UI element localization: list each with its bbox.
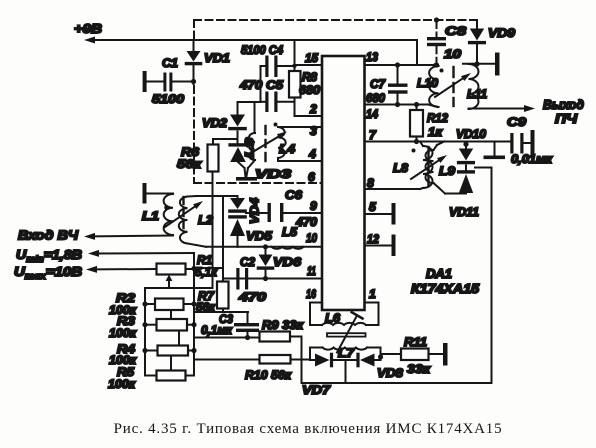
- value 100k (R3): [109, 326, 137, 340]
- wire varicap junction to C6: [246, 212, 268, 214]
- label Umax: [14, 264, 82, 281]
- value 10 (C8): [444, 47, 461, 61]
- svg-text:Umin=1,8В: Umin=1,8В: [16, 247, 82, 264]
- ladder link R3-R4: [178, 331, 180, 346]
- svg-text:VD6: VD6: [273, 255, 301, 269]
- label Вход ВЧ: [18, 228, 79, 243]
- chassis bar (VD9): [495, 53, 500, 76]
- varicap VD4: [228, 196, 247, 213]
- pin 2 wire: [295, 115, 323, 117]
- svg-text:56к: 56к: [177, 157, 202, 171]
- label VD3: [255, 167, 291, 181]
- resistor R6: [208, 139, 238, 172]
- inductor L8: [412, 142, 433, 190]
- label VD10: [456, 127, 486, 141]
- inductor L10: [417, 63, 444, 107]
- IC DA1 box: [322, 56, 365, 310]
- varicap VD3: [228, 143, 247, 177]
- resistor R5: [145, 371, 194, 381]
- inductor L1: [164, 194, 173, 235]
- svg-text:470: 470: [295, 215, 317, 229]
- svg-text:680: 680: [299, 83, 320, 97]
- dashed boundary left edge: [193, 20, 195, 182]
- label R2: [116, 291, 135, 305]
- svg-text:C8: C8: [445, 24, 466, 38]
- label R9 33k: [262, 318, 304, 332]
- power rail +9V wire: [84, 37, 417, 66]
- tuning arrow L10/L11: [435, 73, 471, 97]
- core L10/L11: [452, 67, 454, 106]
- pin 5 wire and chassis bar: [365, 203, 396, 225]
- svg-text:1к: 1к: [428, 125, 443, 139]
- capacitor C5: [261, 92, 295, 113]
- svg-text:L2: L2: [198, 213, 213, 227]
- wire Umin: [88, 250, 194, 257]
- resistor R12: [410, 102, 423, 144]
- tuning arrow L8/L9: [411, 155, 447, 179]
- input wire Вход ВЧ: [84, 233, 173, 240]
- svg-text:C9: C9: [507, 115, 526, 129]
- label DA1: [426, 267, 452, 281]
- label L7: [338, 346, 355, 360]
- inductor L4: [274, 123, 286, 162]
- svg-text:L11: L11: [467, 87, 487, 101]
- svg-text:R12: R12: [427, 111, 448, 125]
- label C9: [507, 115, 526, 129]
- wire L11 top to chassis: [463, 63, 495, 65]
- svg-text:L1: L1: [142, 209, 159, 223]
- svg-text:C1: C1: [162, 56, 178, 70]
- wire VD7 to VD8: [334, 360, 356, 383]
- tuning arrow L1/L2: [165, 201, 203, 227]
- pin 14 wire: [365, 104, 417, 106]
- label Umin: [16, 247, 82, 264]
- label L1: [142, 209, 159, 223]
- wire R7 bottom: [194, 311, 248, 313]
- pin 8 label: [367, 176, 374, 190]
- varicap VD10: [457, 142, 475, 165]
- chassis bar (R11): [443, 343, 448, 366]
- svg-text:4: 4: [308, 147, 316, 161]
- capacitor C6: [268, 203, 284, 222]
- pin 6 label: [308, 170, 315, 184]
- left rail: [142, 288, 147, 376]
- label C6: [285, 188, 302, 202]
- label Vyhod PCh: [543, 97, 584, 126]
- pin 13 label: [366, 50, 378, 64]
- IF output wire: [469, 105, 536, 112]
- svg-text:0,01мк: 0,01мк: [511, 152, 553, 166]
- label L9: [439, 164, 455, 178]
- pin 16 label: [306, 287, 316, 301]
- svg-text:100к: 100к: [109, 326, 137, 340]
- pin 13 wire: [365, 64, 438, 66]
- svg-text:16: 16: [306, 287, 316, 301]
- capacitor C8: [427, 17, 446, 67]
- tuning slug L6/L7: [337, 312, 363, 352]
- varicap VD5: [228, 215, 247, 247]
- svg-text:5100: 5100: [152, 92, 184, 106]
- pin 11 wire: [223, 278, 322, 280]
- diode VD7: [310, 353, 333, 368]
- label L8: [393, 161, 408, 175]
- pin 4 label: [308, 147, 316, 161]
- pin 12 label: [367, 232, 379, 246]
- svg-text:L8: L8: [393, 161, 408, 175]
- varicap VD11: [445, 170, 475, 193]
- resistor R2: [145, 299, 194, 311]
- inductor L2: [179, 196, 206, 247]
- label +9V: [74, 21, 102, 36]
- value 56k (R7): [196, 300, 216, 314]
- svg-text:6: 6: [308, 170, 315, 184]
- label R12: [427, 111, 448, 125]
- wire +9V to R8: [294, 40, 296, 71]
- svg-text:C7: C7: [370, 77, 386, 91]
- pin 5 label: [369, 200, 376, 214]
- label C1: [162, 56, 178, 70]
- chassis ground (tank): [236, 177, 257, 181]
- svg-text:R11: R11: [404, 335, 427, 349]
- resistor R10: [194, 355, 310, 364]
- wire wiper to rails: [145, 287, 213, 289]
- value 100k (R4): [109, 353, 137, 367]
- capacitor C7: [388, 62, 408, 107]
- label L10: [417, 76, 438, 90]
- svg-text:2: 2: [309, 102, 317, 116]
- capacitor C2: [223, 268, 266, 290]
- svg-text:Рис. 4.35 г. Типовая схема вкл: Рис. 4.35 г. Типовая схема включения ИМС…: [114, 421, 503, 437]
- wire varicap mid to right rail: [466, 166, 492, 170]
- svg-text:0,1мк: 0,1мк: [201, 323, 233, 337]
- svg-text:VD8: VD8: [377, 366, 403, 380]
- value 0.01mk (C9): [511, 152, 553, 166]
- value 5.1k (R1): [195, 265, 218, 279]
- svg-text:R9 33к: R9 33к: [262, 318, 304, 332]
- label L11: [467, 87, 487, 101]
- value 470 (C2): [238, 290, 267, 304]
- svg-text:C6: C6: [285, 188, 302, 202]
- inductor L7: [310, 348, 381, 356]
- label VD9: [488, 26, 515, 40]
- label L2: [198, 213, 213, 227]
- dashed AGC boundary top edge: [194, 19, 477, 21]
- label VD7: [302, 383, 331, 397]
- wire rail to osc feed: [194, 267, 223, 269]
- diode VD1: [185, 41, 203, 84]
- pin 4 wire: [278, 160, 322, 162]
- svg-text:L10: L10: [417, 76, 438, 90]
- inductor L5: [272, 247, 304, 249]
- value 1k (R12): [428, 125, 443, 139]
- inductor L11: [469, 64, 479, 109]
- inductor L9: [426, 142, 446, 194]
- wire L7 left down: [309, 348, 311, 361]
- capacitor C9: [510, 130, 534, 157]
- svg-text:Umax=10В: Umax=10В: [14, 264, 82, 281]
- label VD1: [204, 51, 230, 65]
- antenna terminal bar: [143, 183, 147, 204]
- capacitor C1: [143, 71, 192, 92]
- pin 3 label: [310, 124, 317, 138]
- label C2: [240, 255, 255, 269]
- label C8: [445, 24, 466, 38]
- svg-text:VD9: VD9: [488, 26, 515, 40]
- svg-text:R8: R8: [302, 70, 317, 84]
- pin 11 label: [307, 264, 316, 278]
- chassis ground (near C9): [484, 142, 506, 160]
- svg-text:14: 14: [366, 107, 378, 121]
- wire terminal to L1: [147, 193, 174, 195]
- svg-text:L7: L7: [338, 346, 355, 360]
- oscillator line L2 to VD4: [196, 195, 238, 197]
- svg-text:L9: L9: [439, 164, 455, 178]
- pin 7 label: [369, 128, 377, 142]
- core L8/L9: [427, 147, 429, 186]
- value 56k (R6): [177, 157, 202, 171]
- resistor R11: [381, 349, 444, 361]
- svg-text:680: 680: [366, 91, 385, 105]
- svg-text:33к: 33к: [407, 362, 431, 376]
- wire C4/C5 junction to tank: [238, 66, 261, 102]
- inductor L6: [310, 303, 379, 326]
- label R10 56k: [245, 368, 292, 382]
- label VD8: [377, 366, 403, 380]
- ladder link R2-R3: [170, 310, 172, 319]
- label R4: [117, 342, 135, 356]
- svg-text:VD1: VD1: [204, 51, 230, 65]
- svg-text:5100 C4: 5100 C4: [241, 43, 283, 57]
- diode VD8: [356, 353, 383, 368]
- pin 14 label: [366, 107, 378, 121]
- label 5100 C4: [241, 43, 283, 57]
- svg-text:C2: C2: [240, 255, 255, 269]
- value 5100 (C1): [152, 92, 184, 106]
- right rail: [191, 253, 196, 376]
- resistor R7: [217, 279, 229, 313]
- svg-text:VD11: VD11: [449, 205, 479, 219]
- value 33k (R11): [407, 362, 431, 376]
- svg-text:VD2: VD2: [202, 116, 227, 130]
- svg-text:VD3: VD3: [255, 167, 291, 181]
- resistor R4: [145, 346, 194, 356]
- wire R9 to bottom rail: [301, 337, 303, 384]
- label VD5: [246, 229, 272, 243]
- wire osc line to C2 node: [222, 196, 224, 279]
- svg-text:100к: 100к: [108, 377, 136, 391]
- label VD11: [449, 205, 479, 219]
- resistor R1: [157, 264, 186, 275]
- svg-text:VD7: VD7: [302, 383, 331, 397]
- label R5: [117, 365, 134, 379]
- svg-text:Выход: Выход: [543, 97, 584, 112]
- value 470 (C6): [295, 215, 317, 229]
- label L4: [279, 142, 295, 156]
- core L1/L2: [182, 197, 184, 228]
- pin 15 label: [305, 51, 318, 65]
- label R8: [302, 70, 317, 84]
- svg-text:10: 10: [444, 47, 461, 61]
- svg-text:+9В: +9В: [74, 21, 102, 36]
- pin 9 label: [310, 199, 317, 213]
- ladder link R4-R5: [170, 356, 172, 371]
- pin 3 wire: [278, 126, 322, 128]
- svg-text:12: 12: [367, 232, 379, 246]
- pin 16 wire: [310, 303, 322, 326]
- core L6/L7: [327, 333, 366, 336]
- label L5: [282, 225, 297, 239]
- dashed boundary bottom edge / pin 6 wire: [194, 182, 322, 184]
- wire R6 down: [212, 172, 214, 289]
- pin 1 label: [369, 287, 376, 301]
- svg-text:DA1: DA1: [426, 267, 452, 281]
- svg-text:L4: L4: [279, 142, 295, 156]
- varicap VD2: [228, 102, 247, 144]
- svg-text:L5: L5: [282, 225, 297, 239]
- svg-text:Вход ВЧ: Вход ВЧ: [18, 228, 79, 243]
- label R11: [404, 335, 427, 349]
- svg-text:15: 15: [305, 51, 318, 65]
- inductor L3: [247, 102, 256, 176]
- resistor R9: [260, 332, 302, 342]
- label L3: [245, 137, 257, 158]
- svg-text:470: 470: [238, 290, 267, 304]
- capacitor C4: [261, 56, 297, 78]
- pin 1 wire: [365, 303, 379, 326]
- value 0.1mk (C3): [201, 323, 233, 337]
- varicap VD6: [257, 244, 275, 281]
- wire rail to C3 node: [194, 337, 260, 339]
- svg-text:1: 1: [369, 287, 376, 301]
- wire R1 right to rail: [186, 268, 195, 270]
- svg-text:5: 5: [369, 200, 376, 214]
- svg-text:13: 13: [366, 50, 378, 64]
- svg-text:L3: L3: [245, 137, 257, 158]
- label R7: [198, 289, 215, 303]
- value 100k (R2): [109, 303, 137, 317]
- resistor R8: [289, 71, 301, 98]
- core L3/L4: [264, 126, 266, 161]
- label VD4: [250, 197, 262, 224]
- label C7: [370, 77, 386, 91]
- label L6: [325, 311, 340, 325]
- pin 10 label: [306, 231, 317, 245]
- value 100k (R5): [108, 377, 136, 391]
- svg-text:7: 7: [369, 128, 377, 142]
- label 470 C5: [239, 78, 283, 92]
- label VD2: [202, 116, 227, 130]
- svg-text:11: 11: [307, 264, 316, 278]
- label C3: [219, 312, 233, 326]
- value 680 (R8): [299, 83, 320, 97]
- svg-text:9: 9: [310, 199, 317, 213]
- tuning arrow L3/L4: [251, 132, 287, 154]
- svg-text:К174ХА15: К174ХА15: [411, 282, 480, 296]
- svg-text:8: 8: [367, 176, 374, 190]
- label R6: [181, 145, 199, 159]
- value 680 (C7): [366, 91, 385, 105]
- svg-text:ПЧ: ПЧ: [555, 111, 578, 126]
- capacitor C3: [234, 312, 259, 340]
- wire Umax: [86, 266, 157, 273]
- pin 9 wire: [284, 212, 323, 214]
- svg-text:10: 10: [306, 231, 317, 245]
- pin 7 wire: [365, 141, 511, 143]
- wiper arrow R1: [166, 275, 173, 289]
- svg-text:R10 56к: R10 56к: [245, 368, 292, 382]
- pin 10 wire: [206, 246, 322, 248]
- pin 2 label: [309, 102, 317, 116]
- svg-text:VD4: VD4: [250, 197, 262, 224]
- svg-text:VD10: VD10: [456, 127, 486, 141]
- resistor R3: [145, 319, 194, 331]
- pin 15 wire: [295, 64, 323, 66]
- wire R8 to pin2: [294, 98, 296, 117]
- pin 8 wire: [365, 188, 421, 190]
- svg-text:VD5: VD5: [246, 229, 272, 243]
- pin 12 wire and chassis bar: [365, 235, 396, 257]
- svg-text:3: 3: [310, 124, 317, 138]
- label R3: [117, 314, 135, 328]
- svg-text:L6: L6: [325, 311, 340, 325]
- label VD6: [273, 255, 301, 269]
- label R1: [197, 253, 212, 267]
- label K174XA15: [411, 282, 480, 296]
- bottom rail wire: [302, 168, 492, 384]
- diode VD9: [468, 20, 486, 67]
